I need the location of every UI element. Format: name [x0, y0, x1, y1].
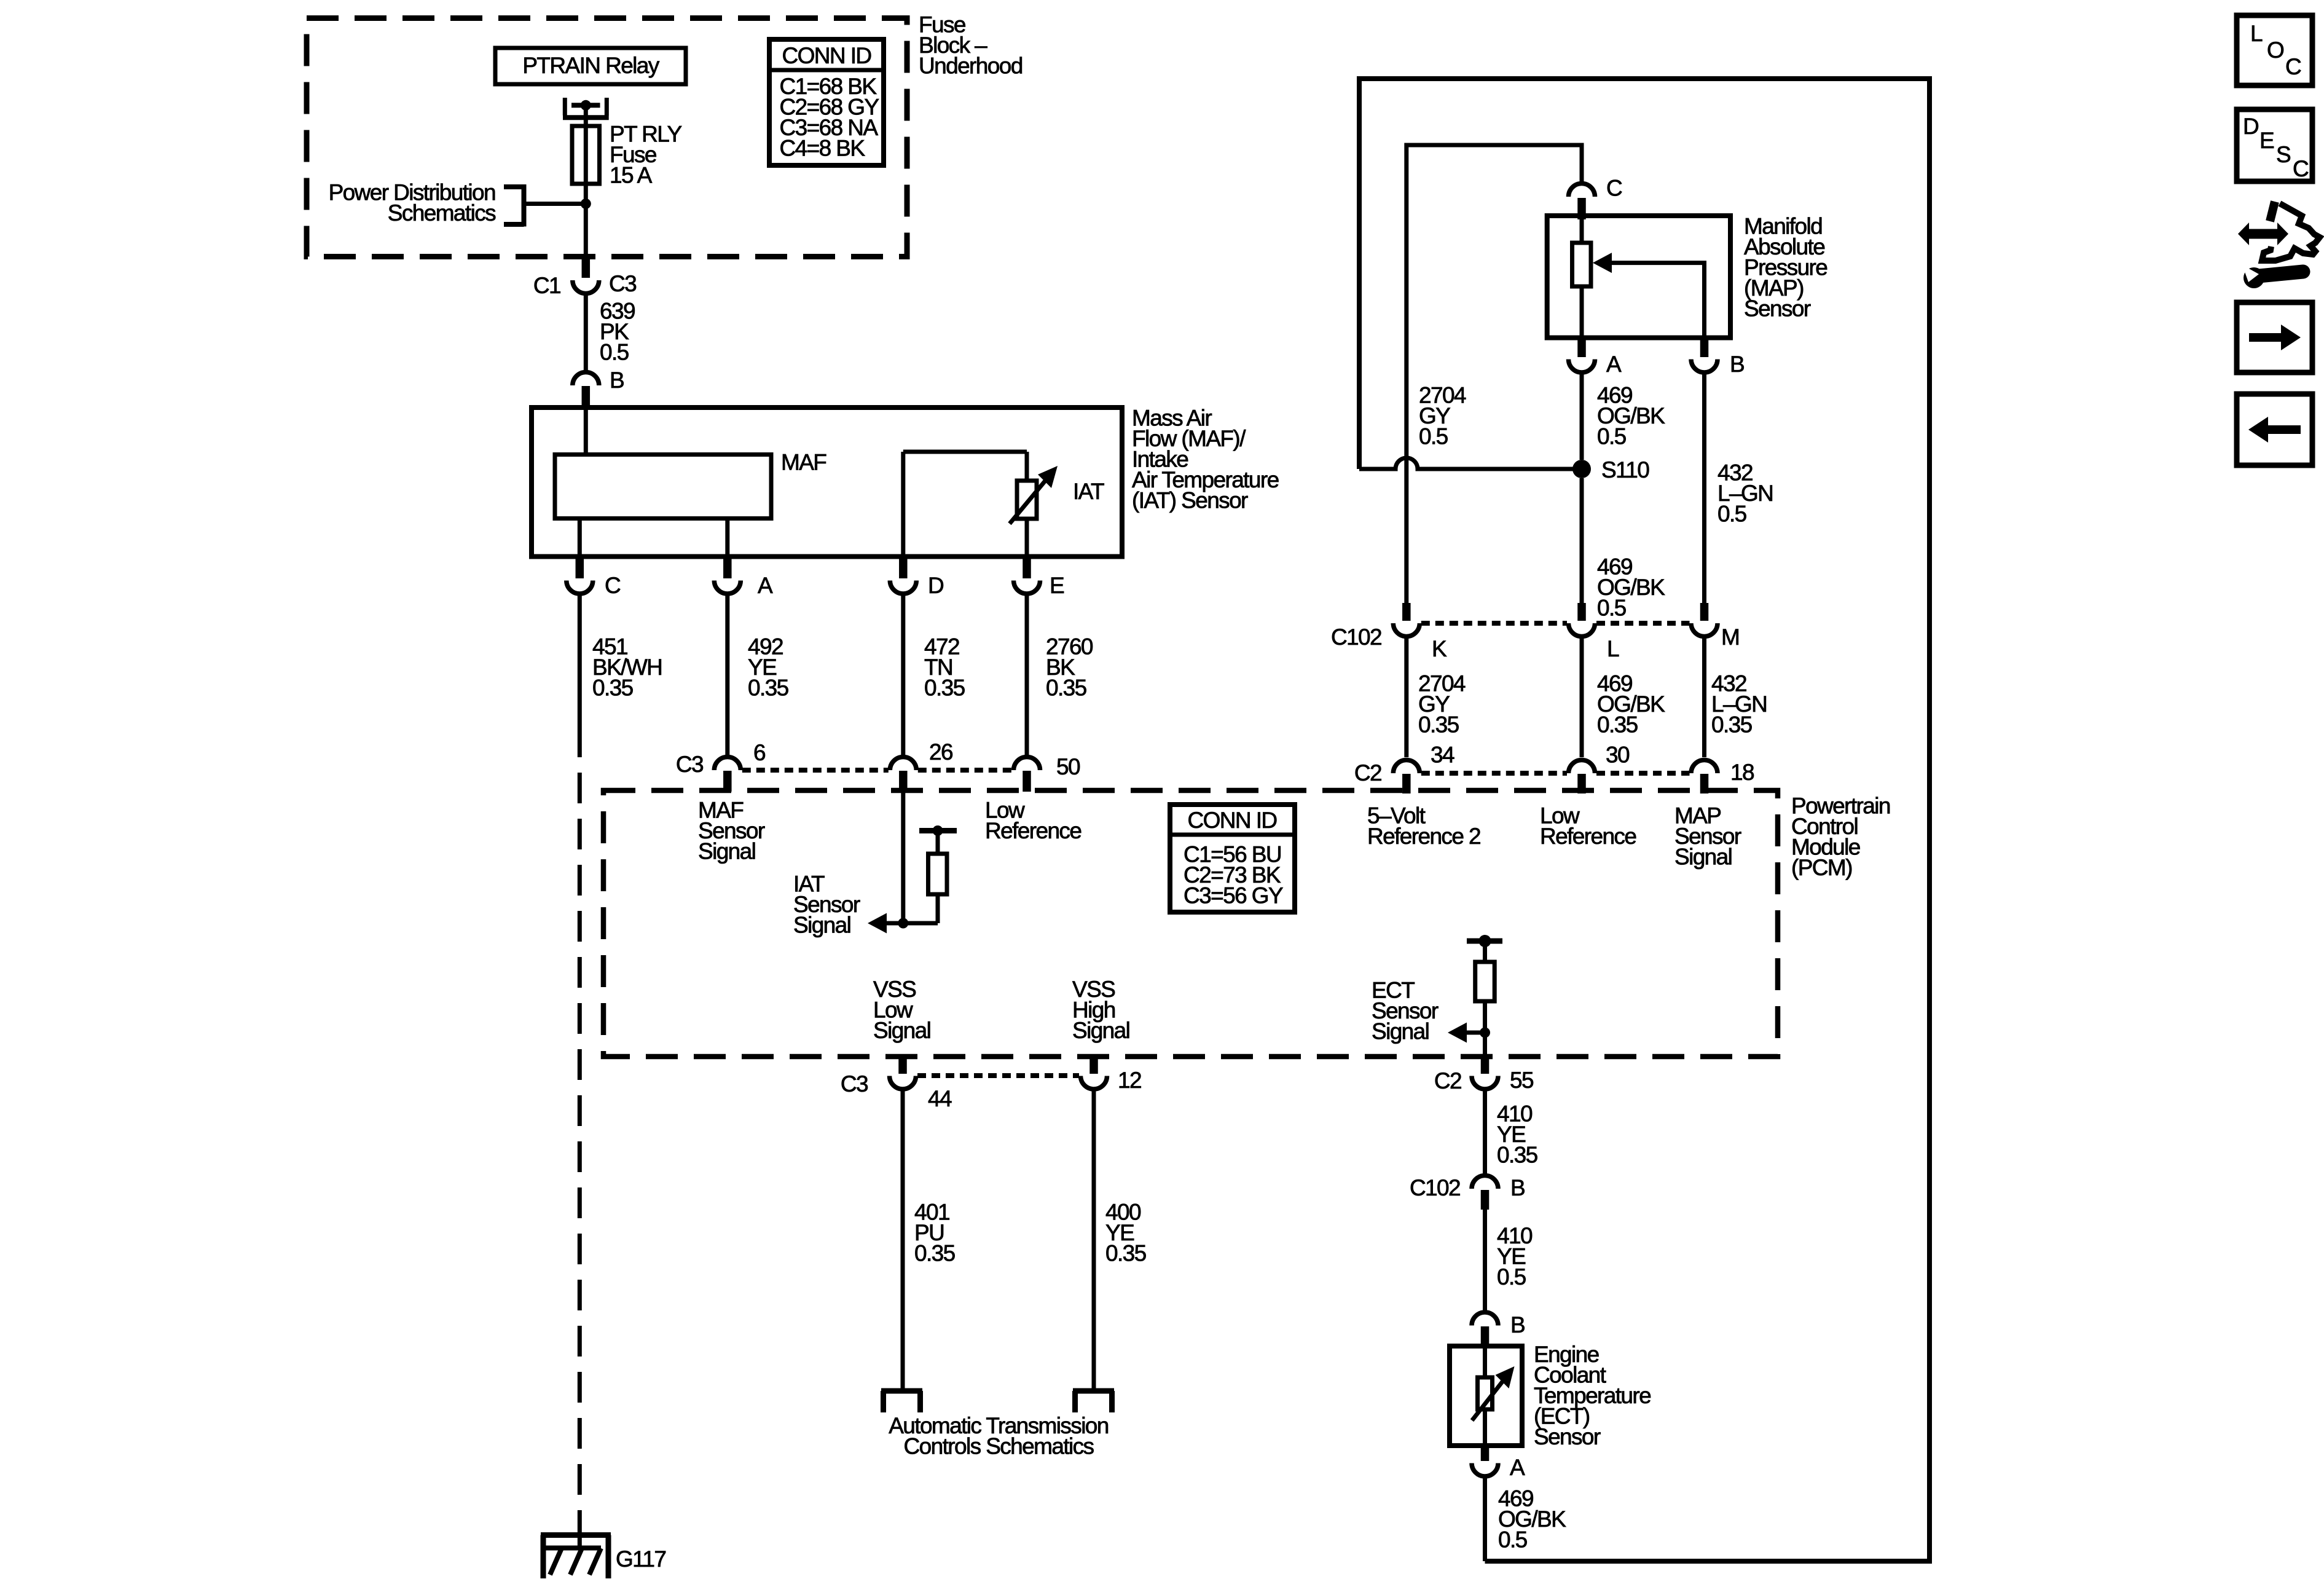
svg-text:Sensor: Sensor	[1534, 1424, 1601, 1449]
wire 469 OG/BK 0.5 (ECT to splice)	[1485, 1476, 1567, 1561]
svg-text:Signal: Signal	[1372, 1019, 1429, 1044]
svg-text:C: C	[1606, 176, 1622, 201]
PCM IAT pull-up resistor	[928, 833, 948, 923]
wire to ground	[578, 1519, 582, 1535]
label: VSS Low Signal	[873, 977, 930, 1043]
connector C2 pin 30	[1569, 742, 1630, 794]
svg-text:O: O	[2267, 37, 2284, 63]
wire 469 OG/BK 0.5 below S110	[1582, 478, 1665, 621]
svg-text:CONN ID: CONN ID	[782, 43, 871, 68]
label: PT RLY Fuse 15 A	[610, 122, 681, 188]
wire 410 YE 0.5	[1485, 1210, 1533, 1312]
connector C102 pin K	[1331, 603, 1447, 661]
svg-text:0.35: 0.35	[1418, 712, 1459, 738]
junction dot power feed	[581, 199, 591, 209]
svg-text:0.5: 0.5	[1419, 424, 1448, 449]
svg-text:34: 34	[1431, 742, 1454, 768]
wire: ECT signal to C2 pin 55	[1483, 1033, 1487, 1055]
connector B at MAF sensor	[573, 368, 624, 408]
connector C2 pin 55	[1434, 1055, 1534, 1093]
connector row C3 dashed line	[742, 768, 1012, 773]
svg-text:C2: C2	[1354, 760, 1381, 786]
svg-text:A: A	[758, 573, 773, 598]
svg-text:0.35: 0.35	[1046, 675, 1087, 700]
connector pin E of MAF sensor	[1014, 558, 1065, 598]
svg-text:0.35: 0.35	[924, 675, 965, 700]
svg-text:C2: C2	[1434, 1068, 1461, 1093]
svg-text:D: D	[2243, 114, 2258, 139]
svg-text:0.35: 0.35	[914, 1241, 956, 1266]
wire 400 YE 0.35	[1094, 1089, 1147, 1388]
wire: IAT to pin E	[1025, 519, 1029, 557]
CONN ID table (PCM)	[1170, 805, 1295, 912]
connector row C3 (VSS) dashed line	[917, 1073, 1079, 1078]
svg-text:C3: C3	[676, 752, 703, 777]
connector row C102 dashed line	[1421, 621, 1690, 626]
wire 451 dashed to ground	[578, 757, 582, 1519]
svg-text:IAT: IAT	[1073, 479, 1104, 504]
svg-text:C: C	[2285, 54, 2301, 79]
wire 432 L-GN 0.5	[1705, 372, 1773, 603]
svg-text:L: L	[2250, 21, 2263, 46]
label: IAT Sensor Signal	[793, 872, 860, 938]
icon: LOC box	[2237, 15, 2312, 85]
svg-text:PTRAIN Relay: PTRAIN Relay	[522, 53, 659, 78]
svg-text:B: B	[1510, 1175, 1525, 1200]
wire 472 TN 0.35	[903, 594, 965, 757]
connector C3 pin 6	[676, 740, 765, 792]
svg-text:C1: C1	[533, 273, 560, 298]
label: ECT Sensor Signal	[1372, 978, 1439, 1044]
connector pin 50	[1014, 754, 1080, 792]
junction dot at relay output	[581, 100, 591, 111]
connector pin D of MAF sensor	[890, 558, 943, 598]
relay contact / fuse holder clip	[563, 98, 609, 117]
off-page connector to automatic transmission (right)	[1073, 1391, 1114, 1412]
wire 2704 GY 0.35	[1407, 637, 1466, 757]
svg-text:30: 30	[1606, 742, 1630, 768]
svg-text:18: 18	[1730, 760, 1754, 785]
connector C2 pin 34	[1354, 742, 1454, 794]
connector pin A of MAF sensor	[714, 558, 773, 598]
low reference rail bar	[919, 825, 957, 836]
CONN ID table (fuse block)	[769, 39, 884, 165]
wire 492 YE 0.35	[728, 594, 789, 757]
connector row C2 dashed line	[1421, 771, 1690, 776]
svg-text:55: 55	[1510, 1068, 1534, 1093]
svg-text:C4=8 BK: C4=8 BK	[780, 136, 866, 161]
svg-text:E: E	[1050, 573, 1064, 598]
wire 410 YE 0.35	[1485, 1089, 1538, 1175]
label: MAF Sensor Signal	[698, 798, 765, 864]
svg-text:0.5: 0.5	[1497, 1264, 1526, 1290]
connector C1/C3 (fuse block to harness)	[533, 259, 636, 298]
svg-text:Underhood: Underhood	[919, 53, 1023, 78]
svg-text:0.5: 0.5	[1498, 1527, 1528, 1552]
svg-text:CONN ID: CONN ID	[1187, 808, 1276, 833]
ECT pull-up resistor	[1475, 941, 1495, 1033]
wire 639 PK 0.5	[586, 294, 635, 372]
svg-text:K: K	[1432, 636, 1447, 661]
svg-text:Reference: Reference	[985, 818, 1081, 843]
wire: MAF element to pin C	[578, 519, 582, 557]
MAF element box	[555, 450, 826, 519]
connector pin A of ECT sensor	[1472, 1446, 1525, 1480]
fuse block - underhood dashed box	[307, 18, 907, 257]
svg-text:C: C	[2293, 156, 2309, 181]
wire 2704 GY 0.5	[1407, 145, 1582, 603]
IAT thermistor	[1010, 466, 1058, 524]
svg-text:G117: G117	[616, 1546, 665, 1572]
svg-text:A: A	[1606, 352, 1622, 377]
label: Low Reference (pin 30)	[1540, 803, 1636, 849]
bracket to power distribution	[504, 184, 524, 227]
relay K1 PTRAIN Relay box	[495, 48, 686, 84]
connector C3 pin 44	[841, 1057, 952, 1111]
MAF/IAT sensor box	[532, 408, 1122, 557]
connector C102 pin L	[1569, 603, 1620, 661]
junction dot IAT signal	[898, 918, 908, 929]
ground G117	[541, 1535, 611, 1579]
svg-text:0.5: 0.5	[1717, 501, 1747, 526]
icon: back arrow box	[2237, 394, 2312, 465]
connector pin C of MAF sensor	[567, 558, 621, 598]
label: Powertrain Control Module (PCM)	[1791, 793, 1890, 881]
label: Fuse Block - Underhood	[919, 12, 1023, 78]
svg-text:Signal: Signal	[793, 913, 850, 938]
svg-text:S: S	[2276, 142, 2290, 167]
svg-text:D: D	[928, 573, 943, 598]
connector pin 12	[1081, 1057, 1141, 1093]
MAP wiper arrow	[1593, 253, 1705, 337]
fuse F1 PT RLY 15 A	[572, 126, 600, 184]
svg-text:0.5: 0.5	[1597, 424, 1627, 449]
svg-text:Reference 2: Reference 2	[1367, 824, 1480, 849]
svg-text:B: B	[1510, 1312, 1525, 1337]
svg-text:MAF: MAF	[781, 450, 826, 475]
label: Engine Coolant Temperature (ECT) Sensor	[1534, 1342, 1651, 1449]
svg-text:E: E	[2259, 128, 2274, 153]
svg-text:C102: C102	[1410, 1175, 1460, 1200]
svg-text:44: 44	[928, 1086, 952, 1111]
connector C102 pin M	[1691, 603, 1739, 650]
svg-text:Reference: Reference	[1540, 824, 1636, 849]
svg-text:0.35: 0.35	[592, 675, 634, 700]
svg-text:Schematics: Schematics	[388, 200, 496, 226]
svg-text:0.35: 0.35	[748, 675, 789, 700]
off-page connector to automatic transmission (left)	[881, 1391, 922, 1412]
svg-text:0.35: 0.35	[1105, 1241, 1147, 1266]
wire 451 BK/WH 0.35	[579, 594, 662, 757]
connector pin B of MAP	[1691, 339, 1744, 377]
svg-text:Signal: Signal	[698, 839, 755, 864]
svg-text:B: B	[610, 368, 624, 393]
svg-text:6: 6	[753, 740, 765, 765]
wire: pin B into MAF element	[584, 408, 588, 455]
IAT signal arrow	[868, 913, 938, 934]
svg-text:C3=56 GY: C3=56 GY	[1184, 883, 1283, 908]
svg-text:S110: S110	[1601, 457, 1649, 482]
svg-text:Controls Schematics: Controls Schematics	[904, 1434, 1094, 1459]
svg-text:A: A	[1510, 1455, 1525, 1480]
connector C at MAP sensor	[1569, 176, 1623, 219]
MAP sensor box	[1547, 216, 1730, 338]
junction dot ECT signal	[1480, 1028, 1490, 1038]
connector pin B of ECT sensor	[1472, 1312, 1525, 1346]
wire: 469 OG/BK loop (ECT ground return)	[1359, 79, 1929, 1561]
icon: next arrow box	[2237, 302, 2312, 372]
label IAT	[1073, 479, 1104, 504]
wire: fuse to junction	[584, 184, 588, 204]
wire 469 OG/BK 0.35	[1582, 637, 1665, 757]
svg-text:C3: C3	[841, 1071, 868, 1097]
svg-text:Signal: Signal	[1072, 1018, 1129, 1043]
ECT pull-up rail bar	[1467, 935, 1502, 947]
MAP internal resistor	[1572, 219, 1592, 338]
wire 401 PU 0.35	[903, 1089, 956, 1388]
svg-text:0.5: 0.5	[600, 339, 629, 364]
svg-text:0.35: 0.35	[1597, 712, 1638, 738]
ECT sensor box	[1450, 1346, 1522, 1446]
wire through fuse	[584, 126, 588, 184]
label: Mass Air Flow (MAF)/Intake Air Temperature (IAT) Sensor	[1132, 406, 1279, 513]
wire 432 L-GN 0.35	[1705, 637, 1767, 757]
svg-text:0.35: 0.35	[1497, 1142, 1538, 1167]
ECT thermistor	[1472, 1346, 1515, 1446]
svg-text:C3: C3	[609, 271, 636, 296]
svg-text:Signal: Signal	[873, 1018, 930, 1043]
label: 5-Volt Reference 2	[1367, 803, 1480, 849]
svg-text:0.35: 0.35	[1711, 712, 1753, 738]
svg-text:Sensor: Sensor	[1744, 296, 1811, 321]
label: Power Distribution Schematics	[329, 180, 497, 226]
icon: adjust/wrench symbol	[2238, 202, 2320, 288]
label: Manifold Absolute Pressure (MAP) Sensor	[1744, 214, 1827, 321]
svg-text:C102: C102	[1331, 624, 1381, 650]
label: VSS High Signal	[1072, 977, 1129, 1043]
svg-text:12: 12	[1118, 1068, 1141, 1093]
wire 2760 BK 0.35	[1027, 594, 1093, 757]
wire 469 OG/BK 0.5 (MAP A to S110)	[1582, 372, 1665, 460]
connector C2 pin 18	[1691, 760, 1754, 793]
wire: relay to fuse	[584, 105, 588, 126]
wire: IAT signal inside PCM	[901, 792, 905, 923]
svg-text:50: 50	[1056, 754, 1080, 779]
label G117	[616, 1546, 665, 1572]
connector pin A of MAP	[1569, 339, 1622, 377]
svg-text:(IAT) Sensor: (IAT) Sensor	[1132, 488, 1248, 513]
svg-text:L: L	[1607, 636, 1619, 661]
svg-text:C: C	[605, 573, 621, 598]
svg-text:26: 26	[929, 739, 952, 765]
wire: loop to S110 with hop over 2704	[1359, 458, 1582, 469]
connector C102 pin B	[1410, 1175, 1525, 1210]
wire: pin D up to IAT	[903, 452, 1027, 557]
wire: bracket to junction	[525, 202, 586, 206]
splice S110	[1572, 457, 1649, 482]
svg-text:(PCM): (PCM)	[1791, 855, 1852, 880]
wire: MAF element to pin A	[725, 519, 729, 557]
svg-text:Signal: Signal	[1674, 844, 1732, 869]
svg-text:15 A: 15 A	[610, 163, 653, 188]
ECT signal arrow	[1448, 1023, 1485, 1043]
svg-text:B: B	[1730, 352, 1744, 377]
svg-text:0.5: 0.5	[1597, 596, 1627, 621]
wire: junction down to connector C1	[584, 204, 588, 259]
label: Automatic Transmission Controls Schematics	[889, 1413, 1109, 1459]
label: Low Reference (pin 50)	[985, 798, 1081, 844]
icon: DESC box	[2237, 109, 2312, 181]
PCM dashed box	[603, 790, 1778, 1057]
label: MAP Sensor Signal	[1674, 803, 1741, 869]
svg-text:M: M	[1721, 624, 1739, 650]
connector pin 26	[890, 739, 952, 792]
